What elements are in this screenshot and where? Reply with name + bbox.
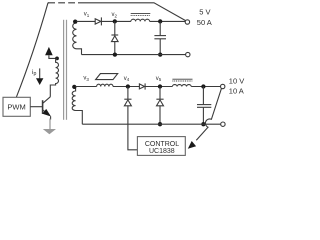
node C2 top dot <box>201 84 205 88</box>
magamp V3 winding <box>97 84 113 86</box>
wire diode V1 to inductor <box>101 20 130 22</box>
wire 5V return rail <box>82 54 186 56</box>
transformer T1 top secondary winding <box>73 21 82 54</box>
node top secondary dot <box>73 19 77 23</box>
node C1 bottom dot <box>158 52 162 56</box>
node C1 top dot <box>158 19 162 23</box>
freewheel diode V5 <box>159 87 161 100</box>
svg-text:10 A: 10 A <box>229 86 244 95</box>
primary current arrow <box>39 68 41 78</box>
wire feedback diagonal from 5V output up to top rail <box>78 3 186 21</box>
terminal 10V return <box>221 122 225 126</box>
terminal 5V return <box>186 52 190 56</box>
magamp V3 saturable core <box>96 74 118 80</box>
wire emitter down <box>50 116 52 119</box>
transformer T1 core <box>63 20 65 120</box>
svg-text:v3: v3 <box>83 76 89 82</box>
svg-text:v5: v5 <box>156 76 162 82</box>
transformer T1 bottom secondary winding <box>72 87 82 125</box>
PWM controller box <box>3 97 30 116</box>
transistor Q1 emitter arrow <box>42 109 51 117</box>
svg-text:v4: v4 <box>124 76 130 82</box>
reset diode V4 <box>127 87 129 100</box>
wire feedback corner stub <box>48 2 49 4</box>
wire 10V return rail <box>82 123 220 125</box>
freewheel diode top output <box>114 21 116 35</box>
capacitor C1 <box>159 21 161 35</box>
capacitor C2 <box>202 87 204 105</box>
node V2 dot <box>113 19 117 23</box>
diode V1 <box>95 19 101 24</box>
svg-text:PWM: PWM <box>7 103 25 112</box>
arrow sense into control box <box>188 141 196 149</box>
svg-text:v1: v1 <box>84 12 90 18</box>
wire top secondary to diode V1 <box>77 20 96 22</box>
inductor L2 core bar solid <box>172 78 192 80</box>
node freewheel bottom dot <box>113 52 117 56</box>
transistor Q1 collector <box>43 97 51 104</box>
node bottom secondary dot <box>72 85 76 89</box>
node V5 dot <box>158 84 162 88</box>
ground <box>49 119 51 131</box>
inductor L2 <box>172 85 191 87</box>
wire feedback dashed segment <box>48 2 75 4</box>
wire sense 10V to control with hop over rail <box>196 89 221 141</box>
rectifier diode series <box>139 84 144 89</box>
wire feedback diagonal down to PWM <box>16 3 48 98</box>
svg-text:v2: v2 <box>112 12 118 18</box>
wire L1 to 5V terminal <box>150 20 186 22</box>
inductor L1 <box>131 19 150 21</box>
wire magamp to rectifier <box>113 86 139 88</box>
transistor Q1 base bar <box>42 100 44 114</box>
transformer T1 primary winding <box>50 58 58 97</box>
transistor Q1 emitter <box>43 110 48 114</box>
inductor L1 core bar hatched <box>131 14 151 16</box>
wire reset diode to control (crosses rail) <box>128 106 137 150</box>
node V4 dot <box>126 84 130 88</box>
supply arrow Vin <box>45 47 53 55</box>
node V5 bottom dot <box>158 122 162 126</box>
svg-text:10 V: 10 V <box>229 77 244 86</box>
terminal 10V plus <box>221 84 225 88</box>
svg-text:ip: ip <box>32 69 36 77</box>
svg-text:CONTROL: CONTROL <box>145 141 179 148</box>
inductor L1 core bar solid <box>131 12 151 14</box>
svg-text:UC1838: UC1838 <box>149 148 175 155</box>
node primary dot <box>55 57 59 61</box>
wire L2 to 10V terminal <box>191 86 220 88</box>
node C2 bottom dot <box>201 122 205 126</box>
svg-text:5 V: 5 V <box>199 7 210 16</box>
CONTROL UC1838 box <box>137 137 185 156</box>
inductor L2 core bar hatched <box>172 80 192 82</box>
wire bottom secondary to magamp <box>76 86 97 88</box>
wire PWM output to transistor base <box>30 106 42 108</box>
wire rectifier to node V5 <box>145 86 172 88</box>
svg-text:50 A: 50 A <box>197 18 212 27</box>
terminal 5V plus <box>185 20 189 24</box>
